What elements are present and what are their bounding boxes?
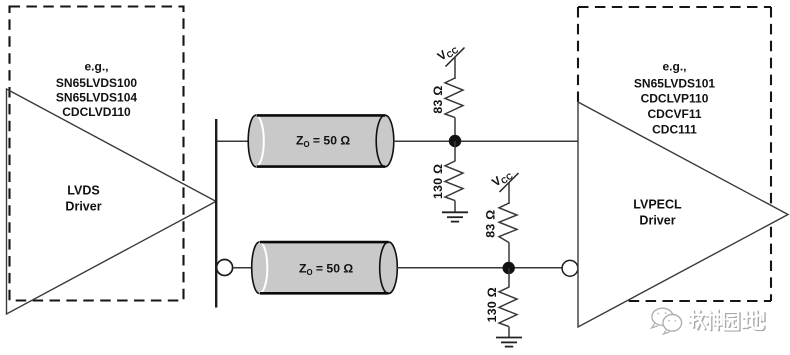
svg-text:VCC: VCC (489, 166, 515, 190)
wire: R2 to ground 1 (454, 201, 456, 213)
wire: R1 to node A (454, 118, 456, 141)
op-amp U2: LVPECL driver triangle (578, 102, 788, 327)
node B: junction dot bottom (503, 262, 515, 274)
label: LVPECL Driver (633, 198, 682, 228)
svg-text:Driver: Driver (65, 200, 101, 214)
node: output junction bar (215, 119, 217, 308)
svg-text:SN65LVDS104: SN65LVDS104 (56, 91, 137, 105)
svg-text:130 Ω: 130 Ω (431, 164, 445, 199)
svg-text:130 Ω: 130 Ω (485, 287, 499, 322)
op-amp U1: LVDS driver triangle (7, 89, 217, 314)
resistor R2: 130 ohm pulldown (445, 161, 463, 201)
ground 1 (442, 212, 468, 221)
value label: 83 ohm (R3) (484, 210, 498, 238)
svg-text:83 Ω: 83 Ω (484, 210, 498, 238)
wire: R4 to ground 2 (508, 327, 510, 338)
wire: bar to TL1 (top, y=141) (217, 140, 250, 142)
svg-text:SN65LVDS101: SN65LVDS101 (634, 77, 715, 91)
node A: junction dot top (449, 135, 461, 147)
dashed box: LVPECL driver package outline (578, 7, 771, 301)
inversion bubble on inverting input (right) (562, 260, 578, 276)
wire: Vcc tick to R1 (454, 57, 456, 79)
inversion bubble on inverting output (left) (217, 260, 233, 276)
wire: TL1 to LVPECL input (top) (394, 140, 579, 142)
svg-text:LVPECL: LVPECL (633, 198, 682, 212)
svg-text:VCC: VCC (435, 40, 461, 64)
transmission line TL1: Zo = 50 ohm (248, 115, 394, 167)
transmission line TL2: Zo = 50 ohm (252, 242, 398, 294)
svg-text:83 Ω: 83 Ω (431, 85, 445, 113)
resistor R4: 130 ohm pulldown (499, 287, 517, 327)
svg-text:LVDS: LVDS (67, 184, 99, 198)
wire: R3 to node B (508, 243, 510, 268)
value label: 130 ohm (R2) (431, 164, 445, 199)
svg-text:Driver: Driver (639, 214, 675, 228)
power symbol Vcc 2 (489, 166, 518, 192)
svg-text:CDC111: CDC111 (652, 123, 697, 137)
label: LVDS Driver (65, 184, 101, 214)
label: left device list (56, 60, 137, 120)
wire: node B to R4 (508, 268, 510, 288)
dashed box: LVDS driver package outline (10, 7, 184, 301)
value label: 83 ohm (R1) (431, 85, 445, 113)
wire: Vcc tick 2 to R3 (508, 183, 510, 205)
watermark icon: chat bubbles (652, 308, 682, 334)
svg-text:e.g.,: e.g., (662, 60, 686, 74)
wire: node A to R2 (454, 141, 456, 162)
value label: 130 ohm (R4) (485, 287, 499, 322)
label: right device list (634, 60, 715, 137)
ground 2 (496, 338, 522, 347)
svg-text:e.g.,: e.g., (84, 60, 108, 74)
svg-text:SN65LVDS100: SN65LVDS100 (56, 76, 137, 90)
resistor R3: 83 ohm pullup (499, 203, 517, 243)
wire: bubble to TL2 (bottom) (233, 267, 254, 269)
svg-text:CDCLVD110: CDCLVD110 (62, 105, 131, 119)
svg-text:CDCVF11: CDCVF11 (647, 107, 701, 121)
resistor R1: 83 ohm pullup (445, 78, 463, 118)
svg-text:CDCLVP110: CDCLVP110 (641, 92, 709, 106)
wire: TL2 to right bubble (bottom) (397, 267, 563, 269)
power symbol Vcc 1 (435, 40, 465, 66)
